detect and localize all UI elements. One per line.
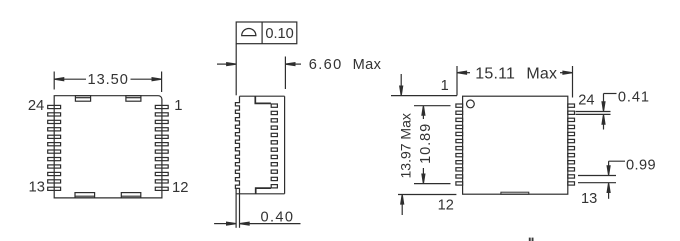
dimension 0.40 — [214, 222, 300, 225]
svg-text:12: 12 — [172, 180, 188, 196]
side view inner lid step bottom — [256, 188, 271, 193]
bottom center bar — [501, 192, 529, 194]
dimension 0.41 leader — [576, 94, 617, 130]
pin 1 indicator circle — [467, 100, 475, 108]
top index mark right — [126, 96, 141, 102]
svg-text:0.41: 0.41 — [618, 89, 650, 105]
svg-text:Max: Max — [353, 57, 382, 73]
right pins 1..12 — [155, 105, 168, 190]
svg-text:Max: Max — [526, 66, 557, 83]
profile of a surface symbol — [242, 28, 256, 35]
svg-text:13.50: 13.50 — [88, 72, 129, 88]
bottom standoff right — [121, 193, 141, 198]
dimension 6.60 Max — [217, 57, 301, 90]
top view package body — [54, 96, 162, 198]
svg-text:24: 24 — [578, 93, 594, 109]
dimension 15.11 Max — [457, 66, 573, 98]
right pins 24..13 (bottom view) — [568, 104, 575, 185]
bottom view package body — [463, 96, 568, 194]
svg-text:13: 13 — [581, 191, 597, 207]
dimension 13.97 Max extension+arrows — [391, 74, 457, 215]
svg-text:10.89: 10.89 — [418, 123, 434, 164]
side view outer body with left lead serration — [235, 96, 284, 194]
svg-text:0.10: 0.10 — [265, 26, 293, 42]
side view inner lid step top — [255, 97, 271, 104]
svg-text:1: 1 — [441, 78, 449, 94]
top index mark left — [75, 96, 90, 102]
svg-text:13: 13 — [29, 180, 45, 196]
svg-text:12: 12 — [438, 197, 454, 213]
left pins 1..12 (bottom view) — [456, 104, 463, 185]
FCF leader line — [235, 44, 237, 96]
cropped glyph mark at bottom edge — [529, 238, 534, 241]
dimension 0.99 leader — [578, 161, 625, 199]
left pins 24..13 — [48, 105, 61, 190]
dimension 13.50 — [54, 72, 161, 93]
svg-text:24: 24 — [28, 98, 44, 114]
dimension 10.89 extension+arrows — [414, 106, 451, 184]
svg-text:13.97 Max: 13.97 Max — [397, 113, 413, 178]
svg-text:0.99: 0.99 — [626, 157, 656, 173]
bottom lead edge lines (0.40 extension) — [236, 188, 239, 227]
feature control frame box — [236, 22, 297, 44]
svg-text:1: 1 — [174, 98, 182, 114]
svg-text:6.60: 6.60 — [309, 57, 343, 73]
svg-text:0.40: 0.40 — [260, 210, 294, 226]
svg-text:15.11: 15.11 — [475, 66, 515, 83]
bottom standoff left — [75, 193, 95, 198]
side view far-row lead strip — [271, 104, 277, 188]
